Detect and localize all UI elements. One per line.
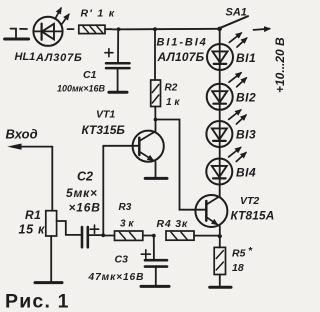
svg-text:КТ315Б: КТ315Б bbox=[82, 123, 126, 137]
resistor R' 1к bbox=[79, 8, 116, 34]
node (VT1 collector) bbox=[154, 118, 158, 122]
svg-text:АЛ107Б: АЛ107Б bbox=[157, 50, 205, 64]
svg-text:ВI2: ВI2 bbox=[236, 91, 256, 105]
svg-text:ВI3: ВI3 bbox=[236, 128, 256, 142]
svg-text:С3: С3 bbox=[115, 254, 129, 266]
svg-text:R′ 1 к: R′ 1 к bbox=[81, 8, 116, 20]
label BI1-BI4 АЛ107Б bbox=[157, 37, 208, 64]
LED HL1 АЛ307Б bbox=[15, 8, 83, 64]
svg-text:15 к: 15 к bbox=[19, 223, 46, 237]
svg-text:VT1: VT1 bbox=[96, 109, 115, 121]
transistor VT2 КТ815А bbox=[195, 195, 274, 236]
svg-text:1 к: 1 к bbox=[166, 97, 180, 108]
switch SA1 bbox=[221, 7, 248, 28]
wire (node up to VT1 base) bbox=[102, 146, 104, 235]
svg-text:Рис. 1: Рис. 1 bbox=[5, 291, 70, 312]
svg-text:ВI1-ВI4: ВI1-ВI4 bbox=[157, 37, 208, 49]
LED BI2 bbox=[207, 73, 256, 110]
ground (R5) bbox=[210, 286, 231, 289]
wire (input arrow) bbox=[18, 146, 52, 148]
LED BI1 bbox=[207, 33, 256, 70]
svg-text:R3: R3 bbox=[119, 202, 132, 213]
capacitor C2 5мк×16В bbox=[66, 170, 102, 248]
wire (arrow to +10...20 В) bbox=[254, 29, 270, 30]
ground (C1) bbox=[109, 91, 127, 94]
svg-text:Вход: Вход bbox=[6, 127, 38, 142]
wire (top rail) bbox=[113, 28, 220, 31]
resistor R3 3к bbox=[103, 202, 154, 240]
svg-text:R2: R2 bbox=[165, 83, 178, 94]
node (SA1 / LED chain) bbox=[217, 27, 222, 32]
svg-text:АЛ307Б: АЛ307Б bbox=[35, 52, 83, 64]
ground (R1) bbox=[35, 281, 62, 284]
wire (input down to R1) bbox=[51, 147, 53, 211]
svg-text:КТ815А: КТ815А bbox=[231, 209, 275, 223]
svg-text:SA1: SA1 bbox=[226, 7, 247, 19]
LED chain wire bbox=[219, 29, 221, 196]
LED BI3 bbox=[206, 110, 256, 147]
svg-text:ВI1: ВI1 bbox=[236, 51, 256, 65]
ground (HL1 cathode) bbox=[5, 29, 29, 39]
node (VT2 emitter / R4 / R5) bbox=[218, 234, 222, 238]
svg-text:18: 18 bbox=[232, 262, 244, 274]
svg-text:R5: R5 bbox=[232, 248, 246, 260]
ground (C3) bbox=[141, 285, 169, 288]
resistor R5* 18 bbox=[214, 236, 253, 285]
node (C1 tap) bbox=[117, 27, 121, 31]
transistor VT1 КТ315Б bbox=[82, 109, 164, 178]
wire (dash R' to rail) bbox=[106, 28, 112, 30]
capacitor C3 47мк×16В bbox=[88, 236, 168, 286]
svg-text:100мк×16В: 100мк×16В bbox=[57, 84, 106, 94]
node (R3/R4/C3) bbox=[152, 234, 156, 238]
wire (dash to HL1) bbox=[20, 28, 27, 30]
resistor R4 3к bbox=[157, 218, 220, 240]
wire (R1 to C2) bbox=[57, 221, 81, 235]
resistor R1 15к bbox=[19, 208, 57, 281]
svg-text:+10...20 В: +10...20 В bbox=[273, 37, 287, 93]
svg-text:×16В: ×16В bbox=[69, 201, 101, 215]
LED BI4 bbox=[206, 148, 256, 185]
wire (dash HL1 to R') bbox=[68, 28, 74, 30]
wire (VT1 collector to VT2 base) bbox=[156, 120, 206, 210]
node (C2 / R3 / VT1 base) bbox=[101, 233, 105, 237]
svg-text:HL1: HL1 bbox=[15, 51, 36, 63]
svg-text:ВI4: ВI4 bbox=[236, 166, 256, 180]
svg-text:С1: С1 bbox=[83, 69, 97, 81]
svg-text:С2: С2 bbox=[77, 170, 93, 184]
capacitor C1 100мк×16В bbox=[57, 29, 130, 93]
svg-text:VT2: VT2 bbox=[240, 195, 259, 207]
svg-text:3 к: 3 к bbox=[120, 219, 134, 230]
node (R2 tap) bbox=[153, 27, 157, 31]
svg-text:47мк×16В: 47мк×16В bbox=[88, 272, 145, 283]
resistor R2 1к bbox=[151, 29, 181, 119]
svg-text:5мк×: 5мк× bbox=[66, 186, 98, 200]
ground (VT1 emitter) bbox=[145, 177, 167, 180]
svg-text:R4 3к: R4 3к bbox=[157, 218, 189, 230]
svg-text:R1: R1 bbox=[25, 208, 41, 222]
